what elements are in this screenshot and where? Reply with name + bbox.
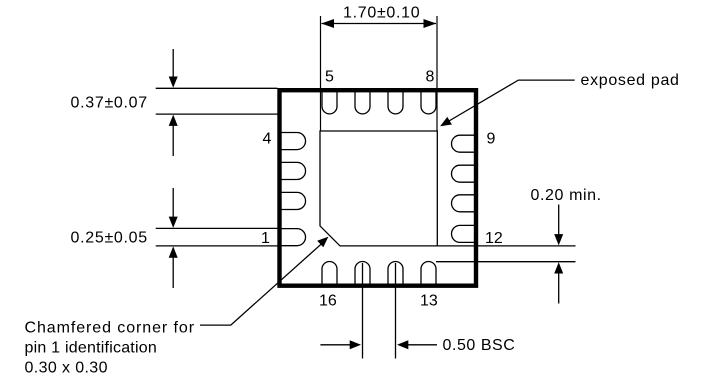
dimension 1.70±0.10: left arrowhead	[321, 19, 334, 28]
svg-text:13: 13	[420, 293, 438, 310]
dimension 0.20 min.: down arrow	[558, 205, 560, 235]
svg-text:8: 8	[426, 69, 435, 86]
dimension 0.50 BSC: left arrow	[320, 344, 350, 346]
svg-text:9: 9	[487, 131, 496, 148]
svg-text:5: 5	[325, 69, 334, 86]
exposed pad	[320, 131, 437, 246]
pin pad 11 (right)	[452, 195, 476, 212]
svg-text:12: 12	[485, 230, 503, 247]
dimension 0.25±0.05: upper reference line	[156, 227, 281, 229]
package outline	[280, 90, 477, 286]
pin pad 2 (left)	[280, 192, 306, 209]
pin pad 14 (bottom)	[388, 262, 403, 286]
svg-text:0.37±0.07: 0.37±0.07	[71, 95, 148, 112]
dimension 0.50 BSC: right arrow	[408, 344, 437, 346]
pin pad 1 (left)	[280, 229, 306, 246]
svg-text:16: 16	[319, 293, 337, 310]
dimension 0.50 BSC: right extension line (pin 14 center)	[395, 263, 397, 359]
svg-text:pin 1 identification: pin 1 identification	[25, 340, 158, 357]
dimension 0.25±0.05: up arrow	[172, 257, 174, 288]
svg-text:1.70±0.10: 1.70±0.10	[343, 5, 420, 22]
pin pad 4 (left)	[280, 133, 306, 150]
dimension 0.37±0.07: up arrow	[172, 125, 174, 156]
pin pad 10 (right)	[452, 165, 476, 182]
dimension 0.20 min.: upper reference line (exposed pad bottom extension)	[437, 245, 576, 247]
pin pad 6 (top)	[355, 91, 370, 114]
dimension 0.20 min.: lower reference line (pin tip extension)	[436, 261, 576, 263]
dimension 0.25±0.05: lower reference line	[156, 245, 278, 247]
dimension 0.37±0.07: lower reference line	[156, 113, 281, 115]
exposed pad leader arrowhead	[440, 117, 452, 126]
dimension 1.70±0.10: dimension line with arrows	[322, 23, 437, 25]
svg-text:0.50 BSC: 0.50 BSC	[443, 337, 516, 354]
chamfer leader line	[200, 240, 326, 325]
svg-text:0.25±0.05: 0.25±0.05	[71, 230, 148, 247]
pin pad 8 (top)	[421, 91, 436, 114]
pin pad 7 (top)	[388, 91, 403, 114]
svg-text:1: 1	[261, 230, 270, 247]
svg-text:0.20 min.: 0.20 min.	[531, 187, 602, 204]
exposed pad leader line	[443, 80, 575, 124]
pin pad 12 (right)	[452, 225, 476, 242]
dimension 1.70±0.10: right extension line	[436, 16, 438, 131]
dimension 1.70±0.10: left extension line	[320, 16, 322, 131]
dimension 0.50 BSC: left extension line (pin 15 center)	[362, 263, 364, 359]
dimension 0.25±0.05: down arrow	[172, 188, 174, 217]
dimension 1.70±0.10: right arrowhead	[424, 19, 437, 28]
pin pad 15 (bottom)	[355, 262, 370, 286]
chamfer leader arrowhead	[317, 237, 328, 248]
dimension 0.37±0.07: down arrow	[172, 49, 174, 77]
svg-text:0.30 x 0.30: 0.30 x 0.30	[25, 360, 108, 377]
dimension 0.37±0.07: upper reference line	[156, 87, 278, 89]
pin pad 5 (top)	[322, 91, 337, 114]
svg-text:Chamfered corner for: Chamfered corner for	[25, 320, 195, 337]
pin pad 13 (bottom)	[421, 262, 436, 286]
dimension 0.20 min.: up arrow	[558, 273, 560, 304]
pin pad 9 (right)	[452, 135, 476, 152]
pin pad 3 (left)	[280, 162, 306, 179]
svg-text:exposed pad: exposed pad	[581, 72, 680, 89]
svg-text:4: 4	[263, 131, 272, 148]
pin pad 16 (bottom)	[322, 262, 337, 286]
